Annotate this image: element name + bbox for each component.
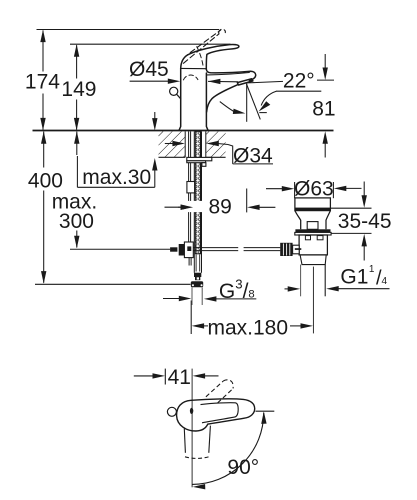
lever top recess inner line [201,403,239,423]
spout top edge [206,69,255,79]
mounting nut washer [187,157,212,160]
dimension max.300 line [74,131,79,248]
drain washer [295,232,331,235]
dimension max.180 lines and arrows [191,267,313,334]
pop-up rod right segment [244,248,281,251]
body tube below handle [184,429,185,453]
handle indicator dot [190,408,193,414]
wire 81 top reference line (aerator level, also Oe45 right arrow line) [208,79,334,84]
drain skirt [300,255,326,265]
faucet single-lever mixer, side view [170,29,256,130]
pull rod vertical [188,131,190,253]
drain body clip right [317,236,323,240]
bottom view: handle top view [134,369,274,490]
hole left edge [184,131,186,157]
svg-text:35-45: 35-45 [338,210,392,233]
svg-text:max.180: max.180 [208,317,289,340]
90deg swing arc [192,413,264,485]
hose end nut [194,273,201,277]
hole right edge [205,131,207,157]
tube bottom dashed arc [185,457,209,459]
rod clamp block [184,242,193,258]
drain body clip left [305,236,310,240]
rod coupling body [293,245,300,254]
drain cone right [326,211,330,230]
wire max.300 bottom reference line (pull rod level) [70,248,170,250]
text labels top view [25,58,392,339]
dimension 35-45 lines and arrows [330,182,372,261]
drain top dark band [295,208,331,211]
node countertop surface line [33,130,334,132]
pull rod lower stub [189,254,191,266]
handle head and lever outline (top view) [177,399,255,431]
dimension 81 arrows [323,54,328,158]
lever raised position dashed outline [183,29,225,63]
spout underside S-curve [207,85,238,112]
dimension Oe63 arrows [266,182,362,198]
drain flange dark band [295,229,330,232]
pop-up drain valve assembly [280,198,331,296]
countertop hatching [159,131,226,157]
pop-up rod knob stem [177,94,181,99]
svg-text:G11/4: G11/4 [340,264,387,289]
dimension 149 line [74,44,79,130]
faucet body left edge [179,68,181,129]
svg-text:Ø45: Ø45 [129,58,169,81]
wire 400 bottom reference line [35,283,191,285]
svg-text:Ø63: Ø63 [294,178,334,201]
pop-up rod left segment [193,248,238,251]
horizontal pop-up rod assembly [170,242,280,258]
olive compression end [191,281,203,287]
handle centre axis line [191,369,193,488]
drain cone left [295,211,301,230]
dimension 174 line [40,30,45,131]
svg-text:Ø34: Ø34 [233,144,273,167]
lever tip reference line [256,410,275,412]
pop-up rod knob behind lever [170,87,178,95]
svg-text:89: 89 [209,195,232,218]
callout max.30 bracket and arrows [77,112,157,187]
dimension Oe45 leader with arrow [130,79,181,84]
pull rod clip [187,182,195,193]
svg-text:90°: 90° [227,456,259,479]
rod clamp block left [179,244,185,256]
90deg arc arrowheads [261,411,266,424]
rod pin [170,247,177,251]
dimension Oe34 arrows and leader [165,141,273,164]
faucet body right edge [206,73,208,130]
drain pull-rod box [307,222,318,230]
dimension G3/8 arrows and leader [163,296,256,302]
svg-text:400: 400 [28,169,63,192]
cartridge hidden dashed lines [183,47,203,80]
svg-text:300: 300 [59,210,94,233]
drain tailpipe left edge [300,265,302,297]
rod knurled coupling nut [280,243,292,256]
mounting nut tab [202,163,206,167]
wire top reference line (lever raised tip level) [37,29,220,31]
G3/8 threaded pipe end [192,287,202,305]
lever handle solid outline [188,44,239,69]
aerator at spout tip [237,79,253,85]
drain tailpipe right edge [324,265,326,297]
rod clamp screw [187,246,191,251]
drain top cylinder [295,198,331,211]
svg-text:22°: 22° [283,70,315,93]
dimension G1 1/4 leader arrow [285,286,390,292]
rod coupling pin [295,248,302,250]
annotation 22deg underline and leader arcs [220,91,321,114]
drain body [299,235,327,255]
svg-text:149: 149 [61,78,96,101]
handle rotated 45deg dashed outline [206,380,233,403]
dimension 400 line [41,131,46,283]
faucet dome left curve [181,55,188,69]
mounting nut [187,161,206,163]
knob circle (top view) [167,407,176,416]
svg-text:174: 174 [25,70,60,93]
wire 149 reference line (lever lowered level) [70,43,231,45]
break in pipes at 89 arrow crossing [186,201,202,212]
dimension 41 extension lines [164,369,166,385]
hose end collar [195,277,200,280]
text labels bottom view [168,366,260,479]
dimension 41 arrows [134,373,219,378]
wire 22deg angle legs (water stream) [247,83,261,121]
svg-text:max.30: max.30 [82,166,151,189]
faucet dome seam [181,67,206,69]
spout top seam line [207,73,249,75]
threaded shank and hole through countertop [178,131,212,305]
svg-text:81: 81 [312,97,335,120]
dimension 89 arrows [165,189,276,213]
supply hose with braid texture [194,131,201,272]
svg-text:41: 41 [168,366,191,389]
